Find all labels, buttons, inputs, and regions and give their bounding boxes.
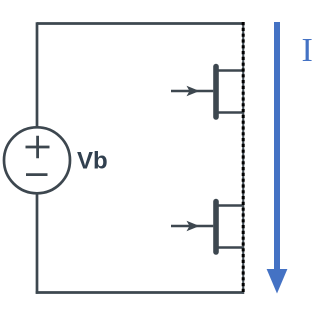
current arrow I shaft (274, 22, 280, 270)
transistor Q2 gate bar (213, 202, 219, 252)
transistor Q1 drain stub (219, 69, 244, 72)
current arrow I head (267, 269, 288, 294)
transistor Q2 gate wire (171, 225, 213, 228)
transistor Q1 gate arrowhead (187, 86, 200, 97)
transistor Q2 source stub (219, 246, 244, 249)
voltage source minus sign (26, 173, 48, 176)
svg-text:Vb: Vb (77, 148, 108, 175)
wire left lower (36, 194, 39, 294)
wire top (37, 22, 244, 25)
transistor Q1 gate bar (213, 67, 219, 117)
transistor Q1 gate wire (171, 90, 213, 93)
voltage source plus sign (26, 136, 50, 158)
svg-text:I: I (302, 32, 313, 69)
dotted channel line (right side of loop) (242, 22, 245, 294)
wire right (solid, under dotted line) (242, 22, 244, 294)
wire bottom (36, 291, 244, 294)
transistor Q2 gate arrowhead (187, 221, 200, 232)
transistor Q2 drain stub (219, 204, 244, 207)
voltage source V1 circle (4, 127, 70, 193)
wire left upper (36, 22, 39, 127)
transistor Q1 source stub (219, 111, 244, 114)
